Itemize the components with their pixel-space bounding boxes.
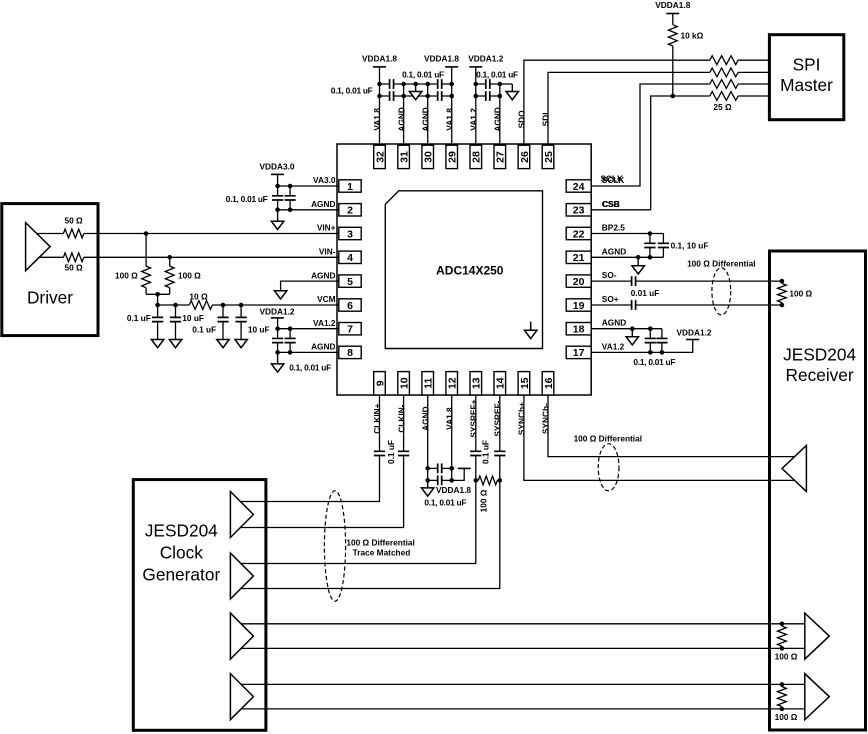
- pin 32 box: [374, 145, 387, 168]
- capacitor 0.1uF (pins17-18): [645, 338, 656, 342]
- supply VDDA1.2 (pin28): [468, 53, 503, 67]
- svg-text:AGND: AGND: [493, 107, 503, 131]
- svg-text:100 Ω: 100 Ω: [775, 652, 798, 662]
- svg-text:VA1.8: VA1.8: [444, 108, 454, 131]
- svg-text:100 Ω: 100 Ω: [115, 271, 138, 281]
- svg-text:AGND: AGND: [602, 246, 626, 256]
- svg-text:VA3.0: VA3.0: [313, 175, 336, 185]
- junctions pins7-8: [275, 326, 292, 354]
- capacitor 0.1uF (BP2.5): [644, 243, 655, 247]
- IC ADC14X250 body: [337, 144, 591, 395]
- supply VDDA1.8 (pin29): [424, 53, 459, 67]
- junction VCM caps: [155, 303, 243, 308]
- pin 24 box: [566, 180, 591, 193]
- pin 26 box: [518, 145, 531, 168]
- wire cap column x290.1 (pins7-8): [289, 329, 291, 353]
- wire BP2.5 net: [591, 234, 664, 258]
- svg-text:50 Ω: 50 Ω: [65, 215, 84, 225]
- pin 23 box: [566, 204, 591, 217]
- pin 4 box: [339, 251, 361, 264]
- junctions SYSREF termination: [474, 478, 503, 483]
- wire SYNCb- net: [548, 395, 795, 457]
- wire AGND pin5: [281, 281, 339, 291]
- svg-text:AGND: AGND: [420, 406, 430, 430]
- wire cap column x650.3 (pins17-18): [649, 329, 651, 353]
- resistor 100ohm (VIN- term): [165, 266, 174, 288]
- supply VDDA1.8 (pin12): [458, 467, 471, 469]
- wire SYSREF- net: [241, 395, 500, 589]
- capacitor 0.1uF (CLKIN-): [398, 451, 409, 455]
- clock generator buffer 1: [230, 492, 253, 538]
- svg-text:0.1 uF: 0.1 uF: [480, 440, 490, 464]
- junctions SO termination: [780, 279, 785, 308]
- svg-text:100 Ω: 100 Ω: [178, 271, 201, 281]
- resistor 100ohm (pair 4): [778, 687, 787, 707]
- wire VA1.2 line pin7: [278, 328, 339, 330]
- svg-text:Trace Matched: Trace Matched: [353, 547, 411, 557]
- ground (pin27): [506, 84, 518, 100]
- svg-text:VDDA1.8: VDDA1.8: [655, 0, 690, 10]
- svg-text:100 Ω: 100 Ω: [775, 712, 798, 722]
- wire clock pair 3 lower: [241, 647, 805, 649]
- svg-text:18: 18: [573, 324, 585, 336]
- receiver input buffer triangle (pair 3): [805, 613, 830, 659]
- wire caps 11-12 lower: [428, 469, 465, 480]
- ground (0.1 uF (VCM c)): [217, 339, 229, 347]
- svg-text:VDDA1.2: VDDA1.2: [468, 53, 503, 63]
- capacitor pins30-29 decoupling 0.01uF: [438, 91, 442, 101]
- pin 14 box: [494, 372, 507, 395]
- svg-text:29: 29: [447, 151, 459, 163]
- svg-text:19: 19: [573, 300, 585, 312]
- capacitor 10 uF (VCM b): [170, 317, 181, 321]
- pin 29 box: [446, 145, 459, 168]
- resistor 10ohm (VCM): [189, 301, 212, 310]
- ground (pin11): [422, 480, 434, 496]
- svg-text:26: 26: [519, 151, 531, 163]
- wire clock pair 3 upper: [241, 623, 805, 625]
- svg-text:Generator: Generator: [142, 564, 220, 584]
- wire AGND link 31-30 upper: [404, 83, 428, 85]
- wire VDDA3.0 stub: [277, 174, 279, 186]
- svg-text:VDDA1.8: VDDA1.8: [436, 485, 471, 495]
- pin 3 box: [339, 227, 361, 240]
- svg-text:100 Ω: 100 Ω: [789, 288, 812, 298]
- svg-text:AGND: AGND: [311, 342, 335, 352]
- svg-text:ADC14X250: ADC14X250: [436, 263, 504, 277]
- wire term stubs pair 4: [781, 684, 783, 709]
- svg-text:6: 6: [347, 300, 353, 312]
- capacitor 0.1 uF (VCM a): [152, 317, 163, 321]
- wire 10k pullup: [672, 14, 674, 97]
- svg-text:5: 5: [347, 276, 353, 288]
- svg-text:VA1.2: VA1.2: [313, 318, 336, 328]
- svg-text:SDI: SDI: [541, 112, 551, 126]
- wire SCLK net: [591, 84, 770, 186]
- capacitor 0.01uF (SO+): [632, 300, 636, 310]
- wire pin28 to VDDA1.2 bar: [475, 67, 477, 146]
- svg-text:AGND: AGND: [602, 318, 626, 328]
- pin 1 box: [339, 180, 361, 193]
- svg-text:AGND: AGND: [311, 270, 335, 280]
- svg-text:VA1.2: VA1.2: [602, 341, 625, 351]
- wire pins32-31 decoupling lower: [380, 95, 404, 97]
- wire SDO net: [524, 60, 770, 145]
- wire pin29 to VDDA1.8 bar: [451, 67, 453, 146]
- capacitor 0.1uF (CLKIN+): [374, 451, 385, 455]
- junction AGND link stub: [413, 82, 418, 87]
- svg-text:VA1.8: VA1.8: [444, 407, 454, 430]
- svg-text:24: 24: [573, 181, 585, 193]
- junctions pins30-29 decoupling: [425, 82, 454, 99]
- junctions pins11-12: [425, 466, 454, 483]
- svg-text:100 Ω Differential: 100 Ω Differential: [687, 259, 755, 269]
- resistor 100ohm (SO pair): [778, 283, 787, 302]
- wire AGND L (pin27): [500, 83, 513, 85]
- svg-text:8: 8: [347, 347, 353, 359]
- svg-text:Driver: Driver: [27, 287, 73, 307]
- differential pair ellipse (SO): [712, 268, 731, 315]
- wire SO- net: [591, 280, 782, 282]
- pin 20 box: [566, 275, 591, 288]
- svg-text:32: 32: [374, 151, 386, 163]
- wire pins30-29 decoupling upper: [428, 83, 452, 85]
- svg-text:21: 21: [573, 252, 585, 264]
- svg-text:SPI: SPI: [793, 55, 821, 75]
- junctions pins17-18: [630, 326, 664, 354]
- svg-text:AGND: AGND: [311, 199, 335, 209]
- svg-text:SYNCb-: SYNCb-: [541, 403, 551, 434]
- pin 18 box: [566, 323, 591, 336]
- ground (pin2): [271, 210, 283, 230]
- svg-text:13: 13: [471, 377, 483, 389]
- pin 9 box: [374, 372, 387, 395]
- svg-text:0.01 uF: 0.01 uF: [631, 288, 660, 298]
- capacitor 0.01uF (SO-): [632, 276, 636, 286]
- svg-text:16: 16: [543, 377, 555, 389]
- wire pin27 stub: [499, 84, 501, 146]
- svg-text:10 uF: 10 uF: [182, 313, 204, 323]
- wire cap column x277.6: [277, 186, 279, 210]
- svg-text:0.1, 0.01 uF: 0.1, 0.01 uF: [226, 194, 268, 204]
- junctions pair 4: [780, 682, 785, 711]
- pin 15 box: [518, 372, 531, 395]
- supply VDDA3.0: [259, 162, 294, 175]
- wire pin32 to VDDA1.8 bar: [379, 67, 381, 146]
- svg-text:AGND: AGND: [396, 107, 406, 131]
- svg-text:0.1 uF: 0.1 uF: [127, 313, 151, 323]
- clock generator buffer 3: [230, 613, 253, 659]
- wire CSB net: [591, 96, 770, 210]
- pin 10 box: [398, 372, 411, 395]
- svg-text:0.1, 0.01 uF: 0.1, 0.01 uF: [476, 69, 518, 79]
- ground (pin21): [632, 257, 644, 274]
- junctions pins1-2: [275, 184, 292, 212]
- capacitor 0.01uF (pins1-2): [285, 196, 296, 200]
- wire SO+ net: [591, 304, 782, 306]
- svg-text:12: 12: [447, 377, 459, 389]
- svg-text:0.1 uF: 0.1 uF: [192, 325, 216, 335]
- capacitor 0.1 uF (VCM c): [217, 317, 228, 321]
- supply VDDA1.8 (pullup): [655, 0, 690, 14]
- capacitor 0.1uF (pins7-8): [272, 338, 283, 342]
- wire SDI net: [548, 72, 769, 145]
- svg-text:VDDA1.8: VDDA1.8: [362, 53, 397, 63]
- svg-text:30: 30: [423, 151, 435, 163]
- JESD204 Receiver block: [770, 251, 866, 730]
- wire SYNCb+ net: [524, 395, 796, 481]
- Driver block: [2, 204, 98, 336]
- pin 17 box: [566, 346, 591, 359]
- capacitor pins28-27 decoupling 0.1uF: [486, 79, 490, 89]
- resistor 10kohm: [668, 25, 677, 46]
- wire 0.1 uF (VCM c) stub: [222, 305, 224, 339]
- wire CLKIN+ net: [240, 395, 380, 502]
- pin 27 box: [494, 145, 507, 168]
- junctions BP2.5: [636, 231, 652, 259]
- wire AGND line pin8: [278, 351, 339, 353]
- svg-text:0.1 uF: 0.1 uF: [386, 440, 396, 464]
- svg-text:BP2.5: BP2.5: [602, 223, 625, 233]
- pin 25 box: [542, 145, 555, 168]
- svg-text:VCM: VCM: [317, 294, 336, 304]
- JESD204 Clock Generator block: [133, 480, 266, 731]
- capacitor 0.01uF (pins11-12): [438, 476, 442, 486]
- ground (pin18): [626, 329, 638, 345]
- wire AGND net pin21: [591, 256, 664, 258]
- svg-text:VDDA3.0: VDDA3.0: [259, 162, 294, 172]
- svg-text:VA1.2: VA1.2: [469, 108, 479, 131]
- pin 22 box: [566, 227, 591, 240]
- pin 11 box: [422, 372, 435, 395]
- svg-text:11: 11: [423, 378, 435, 389]
- capacitor pins32-31 decoupling 0.1uF: [390, 79, 394, 89]
- wire VIN- tap: [169, 257, 171, 294]
- svg-text:0.1, 0.01 uF: 0.1, 0.01 uF: [289, 362, 331, 372]
- junction CSB pullup: [671, 94, 676, 99]
- wire SYSREF term stubs: [476, 479, 500, 481]
- svg-text:10: 10: [399, 377, 411, 389]
- clock generator buffer 4: [230, 674, 253, 720]
- svg-text:VDDA1.8: VDDA1.8: [424, 53, 459, 63]
- resistor 50ohm (VIN-): [63, 253, 83, 262]
- junction VIN taps: [144, 231, 172, 296]
- pin 28 box: [470, 145, 483, 168]
- svg-text:25: 25: [543, 151, 555, 163]
- resistor 25ohm (SDI): [710, 68, 738, 77]
- pin 21 box: [566, 251, 591, 264]
- wire AGND net pin18: [591, 328, 662, 330]
- svg-text:15: 15: [519, 377, 531, 389]
- capacitor 10uF (BP2.5): [658, 243, 669, 247]
- svg-text:0.1, 0.01 uF: 0.1, 0.01 uF: [424, 497, 466, 507]
- svg-text:SYNCb+: SYNCb+: [517, 402, 527, 435]
- svg-text:4: 4: [347, 252, 353, 264]
- pin 7 box: [339, 323, 361, 336]
- wire BP cap column: [649, 234, 651, 258]
- svg-text:100 Ω Differential: 100 Ω Differential: [574, 433, 642, 443]
- capacitor pins28-27 decoupling 0.01uF: [486, 91, 490, 101]
- differential pair ellipse (clock): [324, 491, 345, 602]
- svg-text:JESD204: JESD204: [145, 520, 218, 540]
- IC pin-1 orientation arrow: [525, 322, 537, 339]
- svg-text:CSB: CSB: [602, 199, 620, 209]
- svg-text:VDDA1.2: VDDA1.2: [676, 327, 711, 337]
- svg-text:10 kΩ: 10 kΩ: [681, 30, 704, 40]
- ground (pins31-30): [409, 84, 421, 100]
- svg-text:JESD204: JESD204: [783, 344, 856, 364]
- capacitor 0.1uF (SYSREF+): [470, 451, 481, 455]
- svg-text:SO-: SO-: [602, 270, 617, 280]
- wire clock pair 4 lower: [241, 708, 805, 710]
- pin 12 box: [446, 372, 459, 395]
- wire cap column x661.9 (pins17-18): [661, 329, 663, 353]
- svg-text:23: 23: [573, 205, 585, 217]
- wire pins28-27 decoupling lower: [476, 95, 500, 97]
- differential pair ellipse (SYNC): [598, 444, 619, 491]
- pin 16 box: [542, 372, 555, 395]
- junctions pins32-31 decoupling: [377, 82, 406, 99]
- driver amp triangle: [26, 223, 50, 271]
- wire 0.1 uF (VCM a) stub: [157, 305, 159, 339]
- svg-text:SYSREF+: SYSREF+: [469, 399, 479, 437]
- svg-text:7: 7: [347, 324, 353, 336]
- svg-text:SDO: SDO: [517, 110, 527, 129]
- svg-text:SCLK: SCLK: [601, 174, 624, 184]
- receiver input buffer triangle (pair 4): [805, 674, 830, 720]
- wire AGND pin11: [427, 395, 429, 481]
- wire term stubs pair 3: [781, 624, 783, 649]
- pin 6 box: [339, 299, 361, 312]
- svg-text:17: 17: [573, 347, 585, 359]
- SPI Master block: [769, 35, 843, 120]
- svg-text:100 Ω Differential: 100 Ω Differential: [346, 537, 414, 547]
- capacitor 0.01uF (pins7-8): [285, 338, 296, 342]
- wire cap column x277.6 (pins7-8): [277, 329, 279, 353]
- svg-text:0.1, 10 uF: 0.1, 10 uF: [671, 240, 709, 250]
- wire VA3.0 line: [278, 185, 339, 187]
- wire SO termination stubs: [781, 281, 783, 305]
- wire VA1.8 pin12: [451, 395, 453, 481]
- junctions pair 3: [780, 622, 785, 651]
- wire cap column x290.1: [289, 186, 291, 210]
- resistor 25ohm (SDO): [710, 56, 738, 65]
- ground (pin8): [271, 352, 283, 372]
- svg-text:28: 28: [471, 151, 483, 163]
- capacitor 10 uF (VCM d): [236, 317, 247, 321]
- resistor 25ohm (SCLK): [710, 80, 738, 89]
- wire pin31 stub: [403, 84, 405, 146]
- wire clock pair 4 upper: [241, 683, 805, 685]
- svg-text:SO+: SO+: [602, 294, 619, 304]
- wire AGND link 31-30 lower: [404, 95, 428, 97]
- svg-text:VA1.8: VA1.8: [372, 108, 382, 131]
- wire 10 uF (VCM b) stub: [175, 305, 177, 339]
- IC inner die outline: [385, 191, 542, 349]
- ground (0.1 uF (VCM a)): [151, 339, 163, 347]
- resistor 100ohm (SYSREF): [478, 476, 497, 485]
- svg-text:Receiver: Receiver: [785, 365, 853, 385]
- svg-text:1: 1: [347, 181, 353, 193]
- driver output wires: [30, 234, 339, 258]
- wire pin30 stub: [427, 84, 429, 146]
- pin 8 box: [339, 346, 361, 359]
- svg-text:27: 27: [495, 151, 507, 163]
- svg-text:SYSREF-: SYSREF-: [493, 400, 503, 436]
- pin 31 box: [398, 145, 411, 168]
- capacitor pins32-31 decoupling 0.01uF: [390, 91, 394, 101]
- wire 10 uF (VCM d) stub: [240, 305, 242, 339]
- supply VDDA1.8 (pin32): [362, 53, 397, 67]
- wire VDDA1.2 stub: [277, 318, 279, 329]
- wire VCM net: [158, 304, 339, 306]
- svg-text:14: 14: [495, 377, 507, 389]
- capacitor pins30-29 decoupling 0.1uF: [438, 79, 442, 89]
- capacitor 0.1uF (pins1-2): [272, 196, 283, 200]
- wire pins28-27 decoupling upper: [476, 83, 500, 85]
- svg-text:20: 20: [573, 276, 585, 288]
- wire SYSREF+ net: [241, 395, 476, 564]
- pin 30 box: [422, 145, 435, 168]
- svg-text:CLKIN-: CLKIN-: [396, 404, 406, 432]
- svg-text:0.1, 0.01 uF: 0.1, 0.01 uF: [402, 69, 444, 79]
- svg-text:Master: Master: [780, 75, 833, 95]
- svg-text:22: 22: [573, 228, 585, 240]
- ground (10 uF (VCM b)): [169, 339, 181, 347]
- wire VA1.2 net pin17: [591, 340, 693, 353]
- capacitor 0.01uF (pins17-18): [656, 338, 667, 342]
- pin 2 box: [339, 204, 361, 217]
- svg-text:2: 2: [347, 205, 353, 217]
- resistor 100ohm (VIN+ term): [142, 266, 151, 288]
- SYNC output buffer triangle (receiver): [782, 446, 806, 492]
- ground (pin5): [274, 291, 286, 299]
- wire AGND line pin2: [278, 209, 339, 211]
- pin 19 box: [566, 299, 591, 312]
- svg-text:VDDA1.2: VDDA1.2: [259, 306, 294, 316]
- resistor 50ohm (VIN+): [63, 229, 83, 238]
- junctions pins28-27 decoupling: [474, 82, 503, 99]
- wire VIN+ tap: [145, 234, 147, 295]
- capacitor 0.1uF (pins11-12): [438, 464, 442, 474]
- svg-text:0.1, 0.01 uF: 0.1, 0.01 uF: [633, 357, 675, 367]
- svg-text:9: 9: [374, 380, 386, 386]
- svg-text:AGND: AGND: [420, 107, 430, 131]
- svg-text:0.1, 0.01 uF: 0.1, 0.01 uF: [331, 85, 373, 95]
- svg-text:VIN+: VIN+: [317, 223, 336, 233]
- svg-text:10 uF: 10 uF: [248, 325, 270, 335]
- wire CLKIN- net: [240, 395, 403, 528]
- svg-text:31: 31: [399, 151, 411, 163]
- capacitor 0.1uF (SYSREF-): [494, 451, 505, 455]
- svg-text:100 Ω: 100 Ω: [479, 489, 489, 512]
- svg-text:VIN-: VIN-: [319, 247, 336, 257]
- svg-text:CLKIN+: CLKIN+: [372, 403, 382, 433]
- svg-text:3: 3: [347, 228, 353, 240]
- svg-text:50 Ω: 50 Ω: [65, 263, 84, 273]
- svg-text:Clock: Clock: [160, 542, 204, 562]
- clock generator buffer 2: [230, 553, 253, 599]
- wire pins30-29 decoupling lower: [428, 95, 452, 97]
- wire term join: [146, 294, 170, 305]
- wire caps 11-12 upper: [428, 467, 452, 469]
- supply VDDA1.2 (pin17): [676, 327, 711, 339]
- resistor 25ohm (CSB): [710, 92, 738, 101]
- pin 5 box: [339, 275, 361, 288]
- pin 13 box: [470, 372, 483, 395]
- supply VDDA1.2 (pin7): [259, 306, 294, 318]
- resistor 100ohm (pair 3): [778, 626, 787, 646]
